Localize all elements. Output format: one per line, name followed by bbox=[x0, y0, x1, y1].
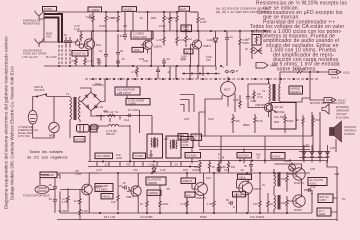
resistor R1 bbox=[74, 24, 82, 42]
wire Q2 emitter/collector bbox=[148, 31, 152, 66]
label box bat bbox=[318, 194, 333, 203]
resistor R34 bbox=[169, 12, 171, 31]
svg-text:4.7K: 4.7K bbox=[180, 202, 186, 206]
capacitor C13 bbox=[226, 198, 235, 207]
transistor Q1 bbox=[84, 39, 102, 49]
driver transformer T3 bbox=[274, 169, 280, 191]
resistor R4 bbox=[111, 12, 119, 31]
resistor R11 bbox=[233, 95, 241, 109]
resistor R18b bbox=[74, 190, 81, 211]
bus y115 bbox=[96, 116, 152, 123]
bus y=160 right bbox=[198, 160, 327, 162]
svg-text:4.7K: 4.7K bbox=[96, 168, 102, 172]
svg-text:1.3K: 1.3K bbox=[233, 98, 239, 102]
svg-text:.05: .05 bbox=[174, 163, 178, 167]
wire drops to dashed bus bbox=[170, 66, 198, 79]
svg-text:2W: 2W bbox=[123, 24, 128, 28]
svg-text:Todos los voltajes: Todos los voltajes bbox=[29, 149, 63, 154]
resistor R5 bbox=[163, 12, 173, 31]
wire motor area bbox=[190, 66, 216, 79]
wire Q1 collector up bbox=[91, 31, 93, 66]
svg-text:30: 30 bbox=[120, 49, 124, 53]
svg-text:150K: 150K bbox=[287, 119, 294, 123]
svg-text:MOT: MOT bbox=[224, 88, 230, 92]
svg-text:BAT 9V: BAT 9V bbox=[320, 195, 329, 199]
svg-text:C30: C30 bbox=[330, 146, 336, 150]
svg-text:P.AUX: P.AUX bbox=[273, 154, 281, 158]
svg-text:2SB77: 2SB77 bbox=[203, 44, 212, 48]
svg-text:1.5K: 1.5K bbox=[70, 59, 76, 63]
capacitor C11 bbox=[48, 196, 57, 205]
bus y=166.5 bbox=[88, 166, 198, 168]
wires Q8 bbox=[237, 173, 261, 213]
label box al punto azul bbox=[308, 178, 327, 186]
label box azul bbox=[238, 174, 252, 179]
labels C8 470K bbox=[75, 169, 82, 176]
svg-text:.02: .02 bbox=[166, 57, 170, 61]
resistor R24 bbox=[253, 198, 261, 213]
resistor R6 bbox=[170, 12, 178, 31]
svg-text:220: 220 bbox=[206, 58, 211, 62]
connector arrow AZUL bbox=[329, 70, 351, 80]
resistor R36 bbox=[70, 56, 77, 66]
switch SW1 bbox=[34, 85, 47, 98]
diode rails bbox=[299, 152, 329, 158]
shielded cable pair (thick) bbox=[44, 14, 62, 42]
svg-text:1.5K: 1.5K bbox=[207, 202, 213, 206]
svg-text:9V: 9V bbox=[342, 197, 346, 201]
socket pins bbox=[225, 71, 235, 74]
svg-text:1K: 1K bbox=[262, 183, 266, 187]
capacitor C7 bbox=[97, 58, 101, 66]
svg-text:1/2W: 1/2W bbox=[200, 20, 207, 24]
label box RADIO bbox=[122, 7, 137, 12]
svg-text:.05: .05 bbox=[122, 181, 126, 185]
svg-text:33K: 33K bbox=[235, 119, 240, 123]
junction dots right bbox=[309, 71, 311, 73]
label box TRES bbox=[191, 134, 202, 141]
chassis rails bbox=[199, 136, 310, 150]
svg-text:CONT 2V: CONT 2V bbox=[74, 52, 86, 56]
wire Q3 bbox=[191, 31, 199, 66]
label box T9A bbox=[178, 134, 188, 141]
svg-text:1.2K: 1.2K bbox=[156, 38, 162, 42]
crystal symbol in note bbox=[252, 48, 262, 55]
svg-text:MIN: MIN bbox=[274, 120, 279, 124]
svg-text:8.2K: 8.2K bbox=[257, 119, 263, 123]
resistor R28 bbox=[194, 161, 201, 173]
svg-text:8 OHMS: 8 OHMS bbox=[344, 132, 355, 136]
text plug bbox=[18, 125, 38, 138]
resistor R33 bbox=[185, 31, 193, 47]
svg-text:Dakaje Modelo 208. Cortesía We: Dakaje Modelo 208. Cortesía Webcor Elect… bbox=[10, 66, 15, 200]
svg-text:6D4: 6D4 bbox=[96, 43, 102, 47]
transistor Q9 bbox=[291, 168, 306, 185]
wire L1 to IF bbox=[125, 110, 152, 162]
svg-text:.05: .05 bbox=[48, 183, 52, 187]
label box OSC bbox=[132, 47, 144, 52]
svg-text:.05: .05 bbox=[63, 33, 67, 37]
svg-text:L.SPKR: L.SPKR bbox=[90, 8, 100, 12]
svg-text:.02: .02 bbox=[305, 143, 309, 147]
capacitor C10 bbox=[48, 183, 57, 192]
label box OPER bbox=[126, 99, 150, 106]
svg-text:A2B A PTO: A2B A PTO bbox=[117, 91, 131, 95]
transistor Q3 bbox=[191, 40, 212, 49]
svg-text:1.5K: 1.5K bbox=[62, 200, 68, 204]
svg-text:456 KC: 456 KC bbox=[106, 132, 115, 136]
resistor R13 bbox=[104, 110, 119, 117]
resistor R12 bbox=[291, 67, 306, 73]
svg-text:50MF: 50MF bbox=[200, 215, 207, 219]
svg-text:1/2W: 1/2W bbox=[99, 24, 106, 28]
panel box ALT bbox=[271, 103, 296, 130]
svg-text:C9 100MF: C9 100MF bbox=[140, 215, 153, 219]
transistor Q4 bbox=[255, 103, 273, 112]
svg-text:5K 1/4W: 5K 1/4W bbox=[46, 55, 57, 59]
svg-text:AUX: AUX bbox=[181, 7, 187, 11]
svg-text:VERDE: VERDE bbox=[149, 191, 159, 195]
wires bottom-left bbox=[40, 175, 60, 213]
AC plug P1 bbox=[28, 110, 37, 124]
svg-text:.04: .04 bbox=[167, 70, 171, 74]
coil L1 bbox=[99, 124, 125, 136]
label box AUX bbox=[179, 6, 190, 11]
labels above q7 bbox=[183, 168, 244, 172]
wire Q4 bbox=[248, 79, 277, 117]
svg-text:AZUL: AZUL bbox=[343, 71, 351, 75]
junction dots bus161 bbox=[102, 160, 291, 168]
wire jack1 common bbox=[39, 12, 44, 42]
top bus y=12 bbox=[57, 11, 198, 13]
svg-text:1.5: 1.5 bbox=[246, 37, 250, 41]
label R volume bbox=[46, 32, 53, 39]
svg-text:470: 470 bbox=[118, 184, 123, 188]
junction dots bus A bbox=[58, 41, 60, 43]
scattered value labels bbox=[89, 13, 346, 201]
IF can Z2 bbox=[166, 136, 181, 158]
svg-text:ANT: ANT bbox=[184, 117, 190, 121]
wire AUX box drop bbox=[184, 11, 186, 31]
labels between bottom buses bbox=[104, 215, 265, 219]
svg-text:150: 150 bbox=[253, 202, 258, 206]
svg-text:2.2K: 2.2K bbox=[160, 168, 166, 172]
bridge rectifier BR1 bbox=[82, 92, 101, 111]
svg-text:8-16 OHM: 8-16 OHM bbox=[336, 116, 349, 120]
label box TONO bbox=[133, 153, 146, 159]
bottom-left connector oval bbox=[35, 186, 55, 194]
label box S2 bbox=[237, 153, 252, 158]
resistor R38 bbox=[284, 114, 294, 133]
svg-text:2SB77: 2SB77 bbox=[126, 195, 135, 199]
capacitor C5 bbox=[116, 34, 124, 66]
svg-text:BOCINA: BOCINA bbox=[274, 110, 285, 114]
svg-text:EXTERNA: EXTERNA bbox=[336, 105, 349, 109]
svg-text:2SB187: 2SB187 bbox=[255, 103, 265, 107]
transistor Q10 bbox=[291, 195, 306, 212]
svg-text:FONO: FONO bbox=[44, 7, 52, 11]
capacitor C16 bbox=[244, 161, 253, 173]
svg-text:A PTO: A PTO bbox=[234, 193, 242, 197]
bus y=161.5 bbox=[88, 161, 198, 163]
connector arrow ROJO bbox=[324, 98, 346, 103]
label box 2.2MEG bbox=[131, 31, 153, 39]
svg-text:1.5K AL ALT: 1.5K AL ALT bbox=[22, 55, 38, 59]
svg-text:AT 7: AT 7 bbox=[319, 209, 325, 213]
svg-text:1K 1/2W: 1K 1/2W bbox=[128, 108, 139, 112]
svg-text:MICROFONO: MICROFONO bbox=[23, 22, 40, 26]
label box VOICE bbox=[289, 86, 303, 94]
svg-text:2SB75: 2SB75 bbox=[154, 45, 163, 49]
svg-text:1K: 1K bbox=[140, 202, 144, 206]
connector arrow AMAR bbox=[256, 63, 278, 69]
wire P2 drop bbox=[89, 129, 91, 162]
label box nivel bbox=[101, 194, 113, 199]
label box at7400 bbox=[317, 208, 331, 216]
svg-text:1.5K: 1.5K bbox=[82, 209, 88, 213]
wire column x=133 bbox=[133, 12, 148, 31]
svg-text:47K: 47K bbox=[126, 163, 131, 167]
svg-text:A2W: A2W bbox=[116, 156, 122, 160]
svg-text:50: 50 bbox=[244, 164, 248, 168]
junction dots y115 bbox=[100, 115, 102, 117]
label box punto verde bbox=[146, 177, 166, 185]
label SW right bbox=[256, 153, 261, 160]
wires Q9 Q10 bbox=[274, 164, 312, 201]
label box FONO bbox=[43, 7, 57, 12]
resistor R22 bbox=[180, 198, 188, 213]
svg-text:N-61: N-61 bbox=[251, 99, 257, 103]
resistor R8 bbox=[176, 31, 185, 46]
svg-text:4.7K: 4.7K bbox=[131, 70, 137, 74]
resistor R7 bbox=[156, 31, 165, 46]
label jack J1 bbox=[23, 19, 41, 26]
svg-text:10: 10 bbox=[99, 49, 103, 53]
capacitor C7b bbox=[246, 84, 257, 103]
resistor R31 bbox=[227, 161, 235, 173]
svg-text:1/2W: 1/2W bbox=[159, 24, 166, 28]
jack J1 bbox=[35, 11, 43, 20]
svg-text:.05: .05 bbox=[166, 187, 170, 191]
label jack J2 bbox=[23, 49, 47, 56]
svg-text:6.8K: 6.8K bbox=[179, 38, 185, 42]
resistor R9 bbox=[190, 12, 207, 31]
labels above bus y66 bbox=[22, 55, 186, 61]
svg-text:1K: 1K bbox=[212, 165, 216, 169]
svg-text:1N60: 1N60 bbox=[207, 38, 214, 42]
svg-text:100K: 100K bbox=[162, 202, 169, 206]
svg-text:T2: T2 bbox=[262, 89, 266, 93]
svg-text:2SB175: 2SB175 bbox=[183, 179, 193, 183]
svg-text:T1: T1 bbox=[66, 92, 70, 96]
svg-text:1K: 1K bbox=[250, 168, 254, 172]
transistor Q5 bbox=[79, 184, 103, 195]
resistor R20 bbox=[140, 195, 148, 212]
wires Q6 bbox=[128, 173, 138, 213]
diode D1 zener bbox=[207, 31, 218, 45]
label 10K pot bbox=[116, 153, 122, 160]
svg-text:OSC: OSC bbox=[208, 117, 214, 121]
svg-text:1.5K: 1.5K bbox=[148, 163, 154, 167]
tuner box bbox=[199, 112, 312, 136]
svg-text:AZUL: AZUL bbox=[239, 175, 247, 179]
potentiometer P1 bbox=[75, 39, 83, 48]
capacitor C8 bbox=[116, 58, 120, 66]
svg-text:NIVEL: NIVEL bbox=[103, 195, 111, 199]
label box under T1 bbox=[74, 137, 85, 142]
capacitor C14 bbox=[306, 185, 316, 194]
transformer T1 bbox=[66, 92, 80, 138]
junction dots top buses bbox=[92, 11, 266, 32]
label box 1N60 bbox=[181, 25, 192, 32]
svg-text:C22 100MF: C22 100MF bbox=[250, 215, 265, 219]
resistor R25 bbox=[267, 193, 274, 213]
resistor R26 bbox=[281, 172, 288, 192]
wire mains loop bbox=[33, 95, 70, 139]
speaker SPK1 bbox=[330, 121, 357, 142]
svg-text:6BE6: 6BE6 bbox=[243, 123, 250, 127]
label R middle bbox=[218, 153, 225, 160]
svg-text:MOTOR DEL CAMBIA (470): MOTOR DEL CAMBIA (470) bbox=[310, 101, 345, 105]
svg-text:.02: .02 bbox=[240, 168, 244, 172]
svg-text:150: 150 bbox=[315, 118, 320, 122]
resistor R15 bbox=[254, 114, 263, 133]
svg-text:OUTLET: OUTLET bbox=[336, 112, 347, 116]
resistor R14 bbox=[232, 114, 240, 136]
svg-text:120: 120 bbox=[231, 165, 236, 169]
jack J2 bbox=[35, 39, 43, 48]
wire bridge out bbox=[80, 79, 105, 116]
svg-text:.01: .01 bbox=[229, 35, 233, 39]
meter M1 bbox=[49, 97, 59, 138]
svg-text:6D6: 6D6 bbox=[151, 16, 157, 20]
svg-text:4.7K: 4.7K bbox=[257, 95, 263, 99]
label box 2SB bbox=[181, 178, 196, 183]
diode D7 bbox=[217, 165, 221, 174]
svg-text:.04: .04 bbox=[121, 57, 125, 61]
svg-text:1.2K: 1.2K bbox=[74, 27, 80, 31]
svg-text:400Ω: 400Ω bbox=[319, 212, 326, 216]
resistor R18 bbox=[62, 188, 69, 210]
small box right of can bbox=[91, 126, 98, 132]
svg-text:AMAR: AMAR bbox=[270, 64, 278, 68]
wire motor legs bbox=[205, 94, 235, 113]
resistor R30 bbox=[218, 161, 226, 173]
transistor Q2 bbox=[141, 40, 162, 49]
svg-text:.02: .02 bbox=[104, 163, 108, 167]
resistor R37 bbox=[84, 57, 93, 66]
svg-text:AZUL: AZUL bbox=[310, 181, 318, 185]
label box A2 bbox=[185, 192, 195, 197]
resistor R21 bbox=[159, 185, 169, 213]
svg-text:ALTAVOZ: ALTAVOZ bbox=[344, 125, 356, 129]
svg-text:SAL: SAL bbox=[284, 159, 290, 163]
svg-text:C1 50MF: C1 50MF bbox=[58, 209, 70, 213]
label box osc2 bbox=[184, 49, 193, 54]
svg-text:.05: .05 bbox=[256, 156, 260, 160]
resistor R17 bbox=[312, 115, 320, 126]
svg-text:1/2W: 1/2W bbox=[243, 41, 250, 45]
svg-text:FONOCAPTOR 600Ω: FONOCAPTOR 600Ω bbox=[23, 194, 50, 198]
test resistor box bbox=[246, 35, 261, 46]
wire speaker bbox=[303, 112, 336, 161]
svg-text:4.7K: 4.7K bbox=[87, 59, 93, 63]
svg-text:.05: .05 bbox=[196, 168, 200, 172]
svg-text:4.7K: 4.7K bbox=[180, 57, 186, 61]
filter cap can bbox=[77, 125, 90, 133]
transistor Q6 bbox=[126, 186, 141, 199]
capacitor C2 bbox=[68, 37, 72, 46]
resistor R29 bbox=[208, 161, 215, 173]
bottom bus y=213 bbox=[60, 212, 312, 214]
wire arrows feed bbox=[280, 72, 329, 102]
wire D1 down bbox=[215, 45, 217, 66]
svg-text:FONO (ALT SPKR): FONO (ALT SPKR) bbox=[23, 52, 47, 56]
svg-text:ALTUR: ALTUR bbox=[75, 138, 84, 142]
resistor R3 bbox=[105, 12, 115, 31]
svg-text:50: 50 bbox=[226, 198, 230, 202]
svg-text:R18: R18 bbox=[183, 168, 189, 172]
note text top middle bbox=[216, 7, 268, 15]
motor M1 bbox=[221, 77, 236, 107]
resistor R10 bbox=[239, 31, 250, 47]
capacitor C17 bbox=[156, 66, 160, 79]
svg-text:TONO: TONO bbox=[135, 154, 143, 158]
capacitor C6 bbox=[225, 31, 233, 66]
svg-text:.02: .02 bbox=[139, 16, 143, 20]
capacitor C3 bbox=[119, 12, 127, 40]
svg-text:1MF: 1MF bbox=[89, 16, 95, 20]
capacitor C9 bbox=[162, 58, 166, 66]
shield dashes to lower bus bbox=[59, 45, 70, 66]
junction dots dashed bus bbox=[92, 78, 308, 80]
svg-text:C1A: C1A bbox=[124, 118, 130, 122]
svg-text:C14: C14 bbox=[206, 176, 212, 180]
svg-text:2SB175: 2SB175 bbox=[196, 196, 206, 200]
transistor Q8 bbox=[237, 181, 262, 195]
capacitor C15 bbox=[124, 114, 131, 122]
label box PUSHPULL bbox=[115, 87, 140, 95]
diode D5 bbox=[326, 145, 330, 163]
svg-text:C25: C25 bbox=[310, 167, 316, 171]
label box L.SPKR bbox=[88, 7, 102, 12]
wire drop x93 bbox=[92, 31, 94, 66]
svg-text:SPEAKER: SPEAKER bbox=[336, 109, 349, 113]
capacitor C4 bbox=[99, 31, 108, 66]
label box a punto bbox=[233, 192, 246, 197]
svg-text:MF RL: MF RL bbox=[95, 105, 104, 109]
label texts under osc2 bbox=[181, 55, 187, 62]
wires right panel bbox=[312, 152, 337, 213]
dashed bus y=79 bbox=[85, 78, 318, 80]
svg-text:SAL PRI: SAL PRI bbox=[274, 115, 285, 119]
resistor R2 bbox=[86, 12, 94, 31]
svg-text:C33: C33 bbox=[143, 59, 149, 63]
IF can Z1 bbox=[147, 134, 169, 158]
diode D4 bbox=[318, 145, 322, 163]
svg-text:RADIO: RADIO bbox=[124, 7, 133, 11]
diode D6 bbox=[152, 165, 156, 174]
text motor note bbox=[310, 101, 349, 120]
label box preamp bbox=[95, 184, 113, 192]
label box VOLUMEN bbox=[95, 153, 113, 159]
driver transformer T4 bbox=[274, 191, 280, 213]
svg-text:2N307: 2N307 bbox=[294, 208, 303, 212]
labels top of bottom row bbox=[96, 168, 254, 172]
svg-text:S2 FON: S2 FON bbox=[239, 154, 249, 158]
svg-text:A: A bbox=[222, 65, 224, 69]
svg-text:1K: 1K bbox=[270, 202, 274, 206]
